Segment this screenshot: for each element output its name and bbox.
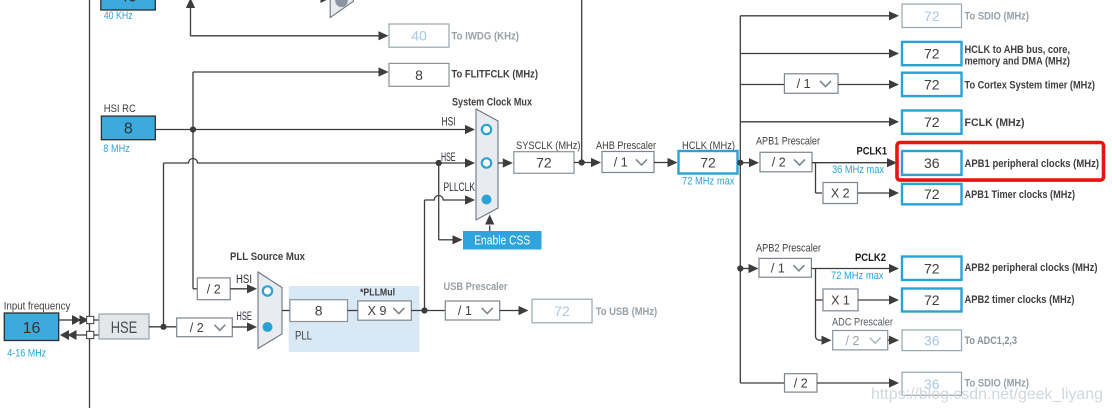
- svg-text:To SDIO (MHz): To SDIO (MHz): [965, 10, 1030, 22]
- junction HSE node: [160, 324, 166, 330]
- svg-text:HCLK to AHB bus, core,: HCLK to AHB bus, core,: [965, 44, 1071, 56]
- pin OSC_IN: [87, 316, 94, 323]
- svg-text:SYSCLK (MHz): SYSCLK (MHz): [516, 140, 581, 152]
- wire PLL mux to PLL input: [282, 310, 290, 312]
- label APB1 Prescaler: [756, 136, 820, 148]
- svg-text:To USB (MHz): To USB (MHz): [596, 306, 658, 318]
- svg-text:72 MHz max: 72 MHz max: [682, 176, 735, 188]
- wire PLLMul output: [411, 310, 445, 312]
- label HCLK (MHz): [682, 140, 735, 152]
- svg-text:40: 40: [411, 28, 427, 44]
- label ADC Prescaler: [832, 317, 893, 329]
- wire mux to SYSCLK: [498, 158, 513, 167]
- wire PLL input to PLLMul: [348, 310, 358, 312]
- ADC prescaler dropdown (grayed): [833, 331, 888, 350]
- HCLK to AHB bus box: [902, 42, 1070, 68]
- Cortex prescaler dropdown: [784, 74, 838, 94]
- APB2 prescaler dropdown: [759, 258, 811, 277]
- wire bus to FCLK: [740, 117, 899, 126]
- wire Cortex prescaler to box: [838, 80, 899, 89]
- svg-text:72: 72: [554, 303, 570, 319]
- svg-text:HSI: HSI: [236, 274, 252, 286]
- wire HSI prescaler to PLL mux: [230, 284, 257, 293]
- label 4-16 MHz: [7, 348, 46, 360]
- svg-text:8 MHz: 8 MHz: [103, 143, 130, 155]
- svg-text:To Cortex System timer (MHz): To Cortex System timer (MHz): [965, 80, 1096, 92]
- label 72 MHz max: [682, 176, 735, 188]
- junction SYSCLK node: [579, 159, 585, 165]
- pin OSC_OUT: [87, 331, 94, 338]
- label AHB Prescaler: [596, 140, 656, 152]
- wire HSE return stub: [94, 334, 99, 336]
- svg-text:72: 72: [924, 186, 940, 202]
- label HSE (system mux input): [441, 152, 456, 164]
- To USB output box (grayed): [532, 299, 657, 323]
- SDIO /2 prescaler box: [785, 374, 818, 392]
- svg-text:72: 72: [924, 76, 940, 92]
- label PCLK2: [855, 252, 886, 264]
- wire arrow into RTC mux (clipped): [321, 0, 330, 3]
- PLLMul X9 dropdown: [358, 301, 412, 320]
- HSE oscillator box: [99, 314, 149, 339]
- To ADC output box (grayed): [902, 330, 1017, 351]
- wire HSI down to HSI prescaler: [193, 130, 197, 289]
- PLL region: [289, 286, 420, 352]
- svg-text:8: 8: [124, 121, 133, 138]
- svg-text:APB2 peripheral clocks (MHz): APB2 peripheral clocks (MHz): [965, 262, 1098, 274]
- APB1 peripheral clocks box: [902, 151, 1099, 175]
- wire X2 to APB1 timer box: [858, 188, 899, 197]
- label HSI (system mux input): [442, 117, 456, 129]
- svg-text:*PLLMul: *PLLMul: [360, 287, 395, 299]
- svg-text:To FLITFCLK (MHz): To FLITFCLK (MHz): [452, 69, 539, 81]
- wire HSE output: [149, 326, 177, 328]
- svg-text:72 MHz max: 72 MHz max: [831, 270, 884, 282]
- wire SDIO /2 to box: [817, 378, 899, 387]
- label PLL: [295, 329, 312, 343]
- wire HCLK distribution bus (vertical): [739, 16, 741, 383]
- system clock mux: [476, 109, 498, 220]
- svg-text:72: 72: [924, 292, 940, 308]
- svg-text:72: 72: [924, 46, 940, 62]
- svg-text:X 1: X 1: [831, 294, 850, 308]
- wire X1 to APB2 timer box: [858, 295, 899, 304]
- wire AHB to HCLK: [654, 158, 678, 167]
- svg-text:/ 1: / 1: [614, 156, 628, 170]
- wire APB2 to ADC prescaler: [815, 300, 831, 345]
- wire APB2 prescaler to PCLK2 box: [811, 264, 899, 273]
- wire HSE to Enable CSS: [439, 163, 463, 244]
- svg-text:8: 8: [315, 303, 323, 319]
- wire HSE return (double arrow out): [60, 330, 87, 340]
- X2 multiplier box: [823, 183, 858, 204]
- wire bus to APB2 prescaler: [740, 264, 758, 273]
- highlight red box: [897, 143, 1104, 181]
- svg-text:PLL Source Mux: PLL Source Mux: [230, 251, 306, 263]
- label 8 MHz: [103, 143, 130, 155]
- label 72 MHz max (APB2): [831, 270, 884, 282]
- wire SYSCLK to AHB prescaler: [574, 158, 601, 167]
- junction PLLCLK node: [421, 307, 427, 313]
- svg-text:4-16 MHz: 4-16 MHz: [7, 348, 46, 360]
- HCLK box: [679, 151, 738, 174]
- svg-text:/ 2: / 2: [846, 334, 860, 348]
- To FLITFCLK output box: [389, 63, 538, 86]
- wire HCLK to bus: [738, 158, 760, 167]
- wire USB prescaler to box: [500, 306, 529, 315]
- junction HCLK bus node: [737, 160, 743, 166]
- X1 multiplier box: [823, 289, 858, 311]
- wire LSI to IWDG: [191, 31, 389, 40]
- LSI RC source box (40 kHz, clipped at top): [101, 0, 156, 10]
- svg-text:APB1 Timer clocks (MHz): APB1 Timer clocks (MHz): [965, 189, 1076, 201]
- wire input to HSE pin (double arrow in): [59, 315, 89, 325]
- svg-text:/ 1: / 1: [797, 77, 811, 91]
- svg-text:APB2 Prescaler: APB2 Prescaler: [756, 243, 821, 255]
- wire APB1 to X2 multiplier: [816, 163, 823, 193]
- label 36 MHz max: [832, 164, 884, 176]
- label APB2 Prescaler: [756, 243, 821, 255]
- svg-text:72: 72: [924, 8, 940, 24]
- svg-text:USB Prescaler: USB Prescaler: [444, 281, 509, 293]
- svg-text:/ 2: / 2: [794, 377, 808, 391]
- svg-text:40: 40: [119, 0, 137, 6]
- svg-text:/ 1: / 1: [771, 261, 785, 275]
- svg-text:APB1 Prescaler: APB1 Prescaler: [756, 136, 820, 148]
- svg-text:HSI RC: HSI RC: [104, 103, 136, 115]
- svg-text:https://blog.csdn.net/geek_liy: https://blog.csdn.net/geek_liyang: [871, 386, 1103, 403]
- svg-text:System Clock Mux: System Clock Mux: [452, 97, 533, 109]
- USB prescaler dropdown: [445, 301, 499, 320]
- svg-text:/ 2: / 2: [772, 156, 786, 170]
- junction APB2 bus node: [737, 265, 743, 271]
- wire bus to HCLK-AHB box: [740, 49, 899, 58]
- wire bus to SDIO top: [740, 11, 899, 20]
- svg-text:Input frequency: Input frequency: [4, 301, 71, 313]
- label PLLCLK: [444, 182, 476, 194]
- svg-text:To ADC1,2,3: To ADC1,2,3: [965, 335, 1018, 347]
- svg-text:PCLK2: PCLK2: [855, 252, 886, 264]
- svg-text:APB2 timer clocks (MHz): APB2 timer clocks (MHz): [965, 294, 1075, 306]
- svg-text:16: 16: [23, 320, 41, 337]
- wire SYSCLK up (to RTC, clipped): [581, 0, 583, 163]
- svg-text:72: 72: [700, 154, 716, 170]
- To Cortex System timer box: [902, 73, 1095, 96]
- HSE prescaler /2 dropdown: [177, 318, 233, 337]
- wire ADC prescaler to box: [888, 336, 899, 345]
- wire APB2 to X1 multiplier: [816, 269, 824, 301]
- svg-text:ADC Prescaler: ADC Prescaler: [832, 317, 893, 329]
- junction HSI node: [190, 126, 196, 132]
- svg-text:/ 1: / 1: [458, 304, 472, 318]
- svg-text:APB1 peripheral clocks (MHz): APB1 peripheral clocks (MHz): [965, 158, 1100, 170]
- svg-text:PLL: PLL: [295, 329, 312, 343]
- svg-text:X 2: X 2: [831, 187, 850, 201]
- label PLL Source Mux: [230, 251, 306, 263]
- To SDIO output box (bottom, grayed): [902, 372, 1029, 395]
- label USB Prescaler: [444, 281, 509, 293]
- APB2 peripheral clocks box: [902, 257, 1098, 281]
- label HSE (PLL mux input): [236, 311, 252, 323]
- label HSI RC: [104, 103, 136, 115]
- wire bus to SDIO /2: [740, 382, 784, 384]
- To IWDG output box (grayed): [389, 24, 519, 47]
- label PCLK1: [857, 146, 888, 158]
- svg-text:36: 36: [924, 332, 940, 348]
- svg-text:36 MHz max: 36 MHz max: [832, 164, 884, 176]
- svg-text:/ 2: / 2: [190, 321, 204, 335]
- Enable CSS button: [463, 231, 542, 250]
- svg-text:To IWDG (KHz): To IWDG (KHz): [452, 31, 520, 43]
- svg-text:memory and DMA (MHz): memory and DMA (MHz): [965, 56, 1071, 68]
- wire bus to Cortex prescaler: [740, 84, 784, 86]
- svg-text:HSE: HSE: [441, 152, 456, 164]
- wire HSE up to system mux (hop over HSI vertical): [164, 158, 476, 326]
- label HSI (PLL mux input): [236, 274, 252, 286]
- FCLK output box: [902, 111, 1025, 134]
- SYSCLK box: [514, 152, 574, 174]
- svg-text:/ 2: / 2: [207, 282, 221, 296]
- wire APB1 prescaler to PCLK1 box: [812, 158, 897, 167]
- svg-text:72: 72: [924, 114, 940, 130]
- wire HSE prescaler to PLL mux: [232, 322, 257, 331]
- wire OSC_IN stub: [94, 319, 99, 321]
- svg-text:FCLK (MHz): FCLK (MHz): [965, 117, 1025, 129]
- APB1 prescaler dropdown: [760, 152, 812, 172]
- PLL input box: [290, 300, 348, 322]
- svg-text:40 KHz: 40 KHz: [104, 10, 133, 22]
- wire chip boundary (left vertical): [89, 0, 91, 408]
- To SDIO output box (top, grayed): [902, 4, 1029, 27]
- Input frequency box: [4, 313, 58, 341]
- svg-text:72: 72: [924, 260, 940, 276]
- PLL source mux: [258, 272, 282, 349]
- APB1 timer clocks box: [902, 184, 1075, 204]
- svg-text:HSI: HSI: [442, 117, 456, 129]
- wire HSI to system mux: [155, 125, 475, 134]
- label *PLLMul: [360, 287, 395, 299]
- svg-text:72: 72: [536, 155, 552, 171]
- HSI prescaler /2 box: [197, 278, 230, 300]
- junction HSE-CSS node: [436, 160, 442, 166]
- watermark: [871, 386, 1103, 403]
- wire LSI to RTC mux (vertical, arrow up clipped): [186, 0, 195, 36]
- AHB prescaler dropdown: [602, 152, 654, 173]
- wire PLLCLK to system mux (hop over CSS wire): [425, 195, 476, 310]
- svg-text:36: 36: [924, 155, 940, 171]
- svg-text:8: 8: [415, 67, 423, 83]
- label System Clock Mux: [452, 97, 533, 109]
- HSI RC source box: [101, 116, 155, 140]
- label SYSCLK (MHz): [516, 140, 581, 152]
- svg-text:Enable CSS: Enable CSS: [474, 233, 530, 248]
- APB2 timer clocks box: [902, 289, 1075, 312]
- label Input frequency: [4, 301, 71, 313]
- svg-text:PCLK1: PCLK1: [857, 146, 888, 158]
- svg-text:AHB Prescaler: AHB Prescaler: [596, 140, 656, 152]
- label 40 KHz: [104, 10, 133, 22]
- RTC clock mux (clipped at top): [330, 0, 353, 18]
- svg-text:PLLCLK: PLLCLK: [444, 182, 476, 194]
- svg-text:HSE: HSE: [111, 318, 138, 337]
- wire HSI to FLITFCLK: [193, 67, 389, 129]
- wire Enable CSS to mux (arrow up): [485, 215, 494, 232]
- svg-text:X 9: X 9: [368, 304, 387, 318]
- svg-text:HSE: HSE: [236, 311, 252, 323]
